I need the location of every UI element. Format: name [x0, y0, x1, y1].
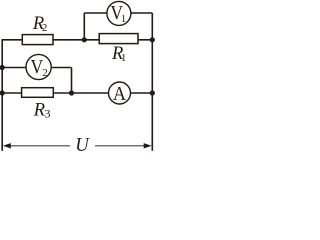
wire: left vertical — [1, 40, 3, 151]
svg-text:3: 3 — [45, 107, 51, 121]
wire: V2 branch vertical drop — [71, 68, 73, 94]
wire: middle rail through R3 and A — [2, 92, 152, 94]
resistor R1 — [99, 34, 138, 44]
wire: V1 branch vertical — [83, 13, 85, 40]
junction dot at V2 drop / middle rail — [69, 90, 74, 95]
wire: V1 branch horizontal — [84, 12, 152, 14]
svg-text:A: A — [113, 83, 127, 105]
voltmeter V1 — [107, 1, 131, 25]
junction dot at V1 branch / top rail — [82, 37, 87, 42]
svg-text:U: U — [75, 134, 90, 156]
U dimension arrow right head — [144, 143, 152, 148]
svg-text:R: R — [33, 100, 45, 120]
wire: V2 branch horizontal — [2, 67, 71, 69]
U dimension arrow right segment — [95, 145, 146, 147]
wire: top rail through R2 and R1 — [2, 39, 153, 41]
resistor R2 — [22, 35, 53, 45]
junction dot at left vertical / middle rail — [0, 90, 5, 95]
svg-text:2: 2 — [42, 67, 48, 79]
svg-text:1: 1 — [121, 13, 127, 25]
voltmeter V2 — [26, 54, 51, 79]
junction dot at right vertical / middle rail — [150, 90, 155, 95]
ammeter A — [109, 82, 131, 104]
U dimension arrow left head — [3, 143, 11, 148]
resistor R3 — [22, 88, 54, 98]
svg-text:2: 2 — [42, 22, 48, 34]
junction dot at left vertical / V2 branch — [0, 65, 5, 70]
junction dot at right vertical / top rail — [150, 37, 155, 42]
svg-text:1: 1 — [121, 52, 127, 64]
U dimension arrow left segment — [9, 145, 70, 147]
wire: right vertical — [151, 13, 153, 151]
